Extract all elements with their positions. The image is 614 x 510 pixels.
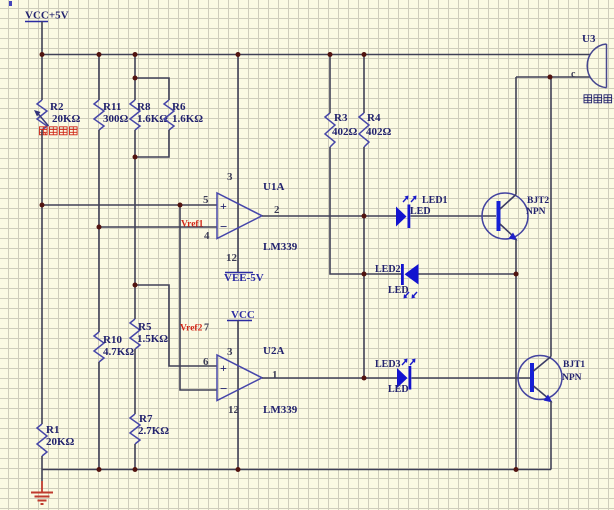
- wire R4 column down: [363, 147, 365, 378]
- diode LED1: [396, 195, 448, 228]
- power VCC (U2A): [227, 309, 255, 321]
- wire LED3 to BJT1 base: [412, 377, 531, 379]
- resistor R4: [359, 112, 392, 147]
- label Vref2 pin7: [180, 323, 209, 334]
- op-amp U1A: [203, 171, 298, 264]
- svg-text:U2A: U2A: [263, 345, 284, 357]
- svg-text:R10: R10: [103, 334, 122, 346]
- resistor R11: [94, 100, 129, 130]
- resistor R8: [130, 100, 168, 130]
- resistor R7: [130, 413, 169, 444]
- ground: [31, 470, 53, 505]
- wire Vref link to U2A pin7: [180, 205, 217, 390]
- junction dot buzzer lead: [548, 75, 553, 80]
- svg-text:LED3: LED3: [375, 359, 401, 370]
- wire R1 bottom: [41, 456, 43, 470]
- svg-text:R7: R7: [139, 413, 153, 425]
- transistor Q BJT1: [518, 356, 585, 403]
- junction dots bottom rail: [97, 467, 519, 472]
- svg-text:NPN: NPN: [562, 373, 582, 383]
- wire R8 top lead: [134, 55, 136, 101]
- wire R11 top lead: [98, 55, 100, 101]
- wire R3 bottom to LED2 node: [330, 147, 364, 274]
- svg-text:2.7KΩ: 2.7KΩ: [138, 425, 169, 437]
- svg-text:2: 2: [274, 204, 280, 216]
- svg-text:LM339: LM339: [263, 404, 298, 416]
- junction dots R4 column: [362, 214, 367, 381]
- wire U2A output to LED3: [262, 377, 397, 379]
- svg-text:12: 12: [226, 252, 238, 264]
- wire bottom rail: [42, 469, 551, 471]
- power VEE-5V: [224, 272, 264, 284]
- buzzer U3: [571, 33, 607, 88]
- svg-text:R2: R2: [50, 101, 64, 113]
- svg-text:NPN: NPN: [526, 207, 546, 217]
- svg-text:1.6KΩ: 1.6KΩ: [172, 113, 203, 125]
- wire R4 top lead: [363, 55, 365, 114]
- svg-text:5: 5: [203, 194, 209, 206]
- wire R8 bottom to R5 top: [134, 130, 136, 319]
- resistor R6: [164, 100, 203, 130]
- wire U1A pin4 input: [99, 226, 217, 228]
- svg-text:LED: LED: [388, 285, 409, 296]
- svg-text:402Ω: 402Ω: [332, 126, 358, 138]
- svg-text:U3: U3: [582, 33, 596, 45]
- svg-text:R5: R5: [138, 321, 152, 333]
- wire R6 branch top: [135, 78, 169, 100]
- svg-text:LM339: LM339: [263, 241, 298, 253]
- svg-text:20KΩ: 20KΩ: [52, 113, 81, 125]
- svg-text:VEE-5V: VEE-5V: [224, 272, 264, 284]
- resistor R10: [94, 332, 134, 362]
- svg-text:12: 12: [228, 404, 240, 416]
- wire top rail: [42, 54, 590, 56]
- wire R10 bottom: [98, 362, 100, 470]
- svg-text:R8: R8: [137, 101, 151, 113]
- wire LED2 to BJT2 emitter column: [419, 273, 517, 275]
- resistor R3: [325, 112, 358, 147]
- power symbol VCC+5V: [25, 10, 69, 55]
- wire U2A pin6 input: [135, 285, 217, 366]
- wire LED1 to BJT2 base: [411, 215, 497, 217]
- svg-text:Vref1: Vref1: [181, 220, 204, 230]
- wire BJT1 emitter down: [550, 401, 552, 470]
- wire BJT2 collector up: [515, 77, 517, 195]
- svg-text:BJT1: BJT1: [563, 360, 585, 370]
- svg-text:U1A: U1A: [263, 181, 284, 193]
- svg-text:300Ω: 300Ω: [103, 113, 129, 125]
- svg-text:+: +: [220, 361, 227, 375]
- svg-text:−: −: [220, 381, 227, 396]
- diode LED3: [375, 359, 416, 396]
- wire LED2 row: [364, 273, 401, 275]
- svg-text:c: c: [571, 69, 576, 80]
- svg-text:6: 6: [203, 356, 209, 368]
- resistor R2: [34, 100, 81, 130]
- svg-text:R1: R1: [46, 424, 59, 436]
- transistor Q BJT2: [482, 193, 549, 241]
- wire R11 bottom to R10 top: [98, 130, 100, 332]
- svg-text:+: +: [220, 199, 227, 213]
- wire U1A power pins column: [237, 55, 239, 273]
- svg-text:Vref2: Vref2: [180, 324, 203, 334]
- junction dots top rail: [40, 52, 367, 57]
- svg-text:R3: R3: [334, 112, 348, 124]
- wire BJT2 emitter down: [515, 239, 517, 470]
- junction dots inputs: [40, 203, 183, 288]
- wire R3 top lead: [329, 55, 331, 114]
- svg-text:3: 3: [227, 171, 233, 183]
- svg-text:VCC+5V: VCC+5V: [25, 10, 69, 22]
- wire U1A output to LED1: [262, 215, 396, 217]
- wire U1A pin5 input: [42, 204, 217, 206]
- svg-text:7: 7: [204, 323, 209, 334]
- svg-text:4.7KΩ: 4.7KΩ: [103, 346, 134, 358]
- svg-text:LED: LED: [388, 384, 409, 395]
- svg-text:4: 4: [204, 230, 210, 242]
- resistor R5: [130, 319, 168, 349]
- svg-text:R6: R6: [172, 101, 186, 113]
- junction dots R6 branch: [133, 76, 138, 160]
- svg-text:1: 1: [272, 369, 278, 381]
- wire R5 bottom to R7 top: [134, 349, 136, 414]
- svg-text:−: −: [220, 219, 227, 234]
- wire R6 branch bottom: [135, 130, 169, 157]
- svg-text:R4: R4: [367, 112, 381, 124]
- junction dot LED2 right: [514, 272, 519, 277]
- svg-text:LED1: LED1: [422, 195, 448, 206]
- diode LED2: [375, 264, 419, 299]
- wire buzzer bottom lead: [516, 76, 590, 78]
- svg-text:20KΩ: 20KΩ: [46, 436, 75, 448]
- svg-text:VCC: VCC: [231, 309, 255, 321]
- wire U2A power pins column: [237, 321, 239, 470]
- svg-text:402Ω: 402Ω: [366, 126, 392, 138]
- svg-text:LED2: LED2: [375, 264, 401, 275]
- wire BJT1 collector up to buzzer: [550, 77, 552, 357]
- svg-text:3: 3: [227, 346, 233, 358]
- op-amp U2A: [203, 345, 298, 416]
- svg-text:R11: R11: [103, 101, 121, 113]
- resistor R1: [37, 424, 75, 456]
- svg-text:BJT2: BJT2: [527, 196, 549, 206]
- label photoresistor (red CJK): [40, 127, 78, 135]
- label buzzer (CJK): [584, 95, 612, 103]
- wire R2 bottom to R1 top: [41, 130, 43, 424]
- wire R7 bottom: [134, 444, 136, 470]
- svg-text:1.5KΩ: 1.5KΩ: [137, 333, 168, 345]
- wire R2 column top lead: [41, 55, 43, 101]
